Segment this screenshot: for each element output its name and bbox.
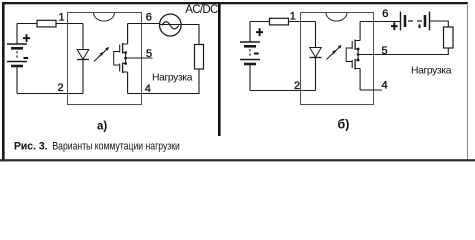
svg-text:Нагрузка: Нагрузка — [411, 66, 452, 77]
battery GB2 plate long — [240, 41, 260, 43]
battery GB3 plate short 2 — [424, 15, 427, 27]
svg-text:6: 6 — [146, 11, 152, 23]
battery GB3 minus label — [419, 25, 421, 29]
pin 6 wire to AC source — [128, 23, 160, 25]
MOSFET gate bracket — [114, 52, 120, 66]
MOSFET Q3 drain riser to pin 6 — [359, 22, 361, 41]
wire load to pin 5 — [358, 48, 448, 55]
battery GB2 dashed cell link — [249, 49, 251, 57]
battery GB1 minus label — [24, 57, 29, 59]
battery GB2 minus label — [254, 53, 259, 55]
border frame bottom — [0, 159, 475, 161]
border frame left — [2, 2, 5, 161]
wire battery to load b — [430, 21, 449, 27]
svg-text:1: 1 — [290, 10, 296, 22]
optocoupler U2 notch — [326, 13, 347, 22]
svg-text:б): б) — [338, 118, 350, 132]
LED VD2 triangle — [310, 48, 322, 58]
MOSFET Q4 gate line — [351, 60, 353, 68]
svg-text:5: 5 — [146, 48, 152, 60]
battery GB1 positive wire — [16, 24, 18, 44]
LED anode wire b — [315, 22, 317, 48]
AC source G1 chord wire — [160, 24, 181, 26]
AC source G1 circle — [160, 14, 182, 36]
MOSFET Q1 drain riser to pin 6 — [127, 24, 129, 45]
battery GB3 plate short 1 — [404, 15, 407, 27]
bottom wire b (pin 2) — [250, 90, 316, 92]
LED cathode wire b — [315, 58, 317, 91]
AC source G1 sine — [162, 22, 179, 29]
common source bus — [125, 53, 127, 64]
MOSFET Q3 gate line — [351, 41, 353, 49]
MOSFET Q4 channel — [354, 59, 356, 70]
MOSFET Q3 drain stub — [355, 40, 360, 42]
battery GB3 dashed link — [408, 20, 423, 22]
battery GB3 plate long 2 — [429, 12, 431, 31]
junction dot mid b — [357, 53, 360, 56]
common source bus b — [357, 49, 359, 60]
border frame top — [2, 2, 468, 4]
MOSFET Q2 drain drop to pin 4 — [127, 72, 129, 94]
wire top b (battery to LED, pin 1) — [250, 21, 316, 23]
LED VD2 cathode bar — [310, 57, 322, 59]
light arrow 2 b — [332, 45, 342, 55]
LED cathode wire — [82, 60, 84, 94]
wire AC source to load — [181, 25, 199, 45]
MOSFET Q1 gate line — [119, 45, 121, 53]
wire load to pin 4 — [128, 69, 199, 94]
battery GB1 plate short (-) — [11, 47, 23, 50]
MOSFET Q3 source stub — [355, 48, 358, 50]
border frame right — [467, 3, 468, 160]
svg-text:а): а) — [97, 121, 107, 133]
svg-text:Рис. 3.: Рис. 3. — [14, 141, 48, 153]
optocoupler U1 notch — [94, 13, 115, 22]
load resistor a — [195, 45, 204, 70]
svg-text:5: 5 — [382, 45, 388, 57]
resistor R2 — [270, 18, 289, 25]
svg-text:Нагрузка: Нагрузка — [152, 72, 193, 83]
battery GB2 positive wire — [249, 22, 251, 42]
MOSFET Q1 source stub — [123, 52, 126, 54]
load resistor b — [444, 27, 454, 48]
column divider — [218, 4, 221, 136]
MOSFET Q4 source stub — [355, 59, 358, 61]
MOSFET Q2 channel — [122, 63, 124, 74]
battery GB3 plus label — [391, 22, 398, 30]
pin 4 stub b — [360, 89, 382, 91]
light arrow 1 — [94, 52, 104, 62]
junction dot mid — [124, 57, 127, 60]
LED anode wire — [82, 24, 84, 50]
battery GB1 plus label — [23, 34, 30, 42]
optocoupler U2 body — [301, 13, 374, 105]
battery GB1 negative wire — [16, 67, 18, 94]
MOSFET Q1 drain stub — [123, 43, 128, 45]
MOSFET Q4 drain drop to pin 4 — [359, 69, 361, 91]
svg-text:2: 2 — [58, 82, 64, 94]
junction dot bottom — [124, 62, 127, 65]
MOSFET Q2 drain stub — [123, 71, 128, 73]
LED VD1 cathode bar — [77, 59, 89, 61]
svg-text:AC/DC: AC/DC — [185, 4, 218, 16]
battery GB2 negative wire — [249, 65, 251, 91]
junction dot top — [124, 51, 127, 54]
svg-text:4: 4 — [382, 80, 388, 92]
battery GB2 plate long 2 — [240, 59, 260, 61]
LED VD1 triangle — [77, 50, 89, 60]
bottom wire a (pin 2) — [17, 93, 83, 95]
MOSFET Q1 channel — [122, 43, 124, 54]
optocoupler U1 body — [68, 13, 142, 105]
battery GB2 plate short 2 — [244, 63, 256, 66]
light arrow 1 b — [327, 50, 337, 60]
pin 6 wire to battery chain — [360, 21, 400, 23]
pin 5 wire stub — [126, 57, 153, 59]
battery GB1 plate short 2 — [11, 65, 23, 68]
svg-text:6: 6 — [382, 8, 388, 20]
svg-text:1: 1 — [59, 12, 65, 24]
svg-text:Варианты коммутации нагрузки: Варианты коммутации нагрузки — [52, 141, 179, 153]
MOSFET Q2 gate line — [119, 64, 121, 72]
MOSFET Q4 drain stub — [355, 68, 360, 70]
MOSFET gate bracket b — [346, 48, 352, 62]
resistor R1 — [37, 20, 56, 27]
wire top (battery to LED, pin 1) — [17, 23, 83, 25]
MOSFET Q2 source stub — [123, 63, 126, 65]
battery GB1 plate long 2 — [7, 61, 27, 63]
battery GB1 plate long (+) — [7, 43, 27, 45]
light arrow 2 — [100, 47, 110, 57]
battery GB2 plus label — [256, 28, 263, 36]
battery GB2 plate short — [244, 45, 256, 48]
junction dot top b — [357, 48, 360, 51]
battery GB1 dashed cell link — [16, 51, 18, 59]
junction dot bottom b — [357, 59, 360, 62]
MOSFET Q3 channel — [354, 40, 356, 51]
battery GB3 plate long 1 — [400, 12, 402, 31]
